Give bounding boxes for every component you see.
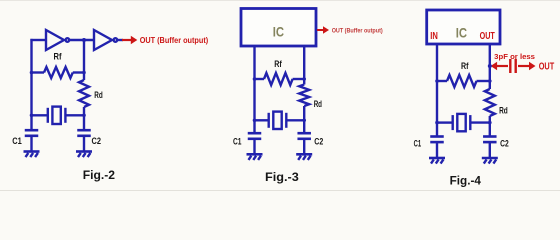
- svg-text:C1: C1: [12, 136, 21, 146]
- svg-text:C2: C2: [92, 136, 102, 146]
- svg-text:C1: C1: [414, 138, 422, 148]
- svg-text:IC: IC: [273, 24, 284, 39]
- svg-text:Fig.-3: Fig.-3: [265, 170, 299, 184]
- svg-text:Rf: Rf: [461, 61, 469, 71]
- svg-text:IN: IN: [430, 31, 438, 42]
- svg-text:Rd: Rd: [94, 90, 103, 100]
- svg-text:Rd: Rd: [499, 105, 508, 115]
- svg-text:OUT (Buffer output): OUT (Buffer output): [332, 27, 383, 34]
- svg-text:Rf: Rf: [54, 52, 63, 62]
- svg-text:Fig.-2: Fig.-2: [83, 168, 115, 182]
- svg-text:Fig.-4: Fig.-4: [450, 174, 481, 188]
- svg-text:OUT: OUT: [539, 62, 555, 73]
- svg-text:Rd: Rd: [314, 99, 323, 109]
- svg-text:OUT (Buffer output): OUT (Buffer output): [140, 36, 209, 45]
- svg-text:OUT: OUT: [480, 31, 496, 42]
- svg-text:C2: C2: [314, 137, 323, 147]
- svg-text:C1: C1: [233, 137, 242, 147]
- svg-text:IC: IC: [456, 25, 467, 40]
- svg-text:C2: C2: [500, 138, 509, 148]
- svg-text:Rf: Rf: [274, 59, 282, 69]
